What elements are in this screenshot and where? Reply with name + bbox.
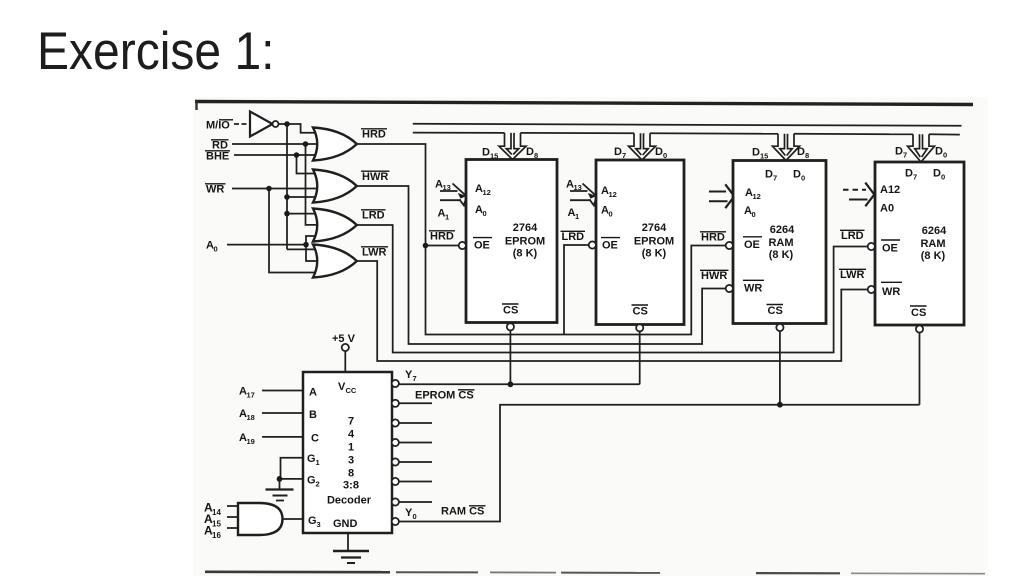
pin bubble decoder Y5 [392,419,399,426]
label OE inside EPROM U2 [601,238,620,252]
label CS inside RAM U3 [767,305,784,318]
data bus rail B segment 1 [413,132,505,134]
svg-text:D: D [905,168,913,180]
svg-text:(8 K): (8 K) [513,248,538,260]
label HWR at gate [361,171,390,183]
wire inverter output to OR gates (M/IO' net) [279,124,320,249]
svg-text:8: 8 [348,468,354,480]
OR gate LWR [313,245,357,278]
RAM U3 chip box [733,161,826,324]
svg-text:6264: 6264 [922,225,947,237]
label A13 at EPROM U1 [435,179,451,193]
svg-text:0: 0 [943,151,947,160]
svg-text:+5 V: +5 V [332,333,356,345]
svg-text:WR: WR [744,283,762,295]
svg-text:12: 12 [753,192,761,201]
label D15 at EPROM U1 [482,147,498,161]
pin bubble RAM U4 WR [868,286,875,293]
junction dot HRD at EPROM U1 OE [423,243,429,249]
label A19 [239,432,255,446]
decoder pin label A [309,387,317,399]
svg-text:7: 7 [903,151,907,160]
svg-text:CC: CC [346,386,357,395]
value label 6264 RAM (8 K) inside U4 [920,225,947,262]
label A1 at EPROM U2 [568,207,580,221]
svg-text:A12: A12 [880,184,900,196]
label HWR at RAM U3 WR [700,270,729,282]
svg-text:7: 7 [348,416,354,428]
label D0 at EPROM U2 [655,146,667,160]
pin bubble EPROM U1 OE [459,242,466,249]
label A0 [206,240,218,254]
svg-text:0: 0 [609,210,613,219]
+5V supply circle [342,344,349,351]
svg-text:19: 19 [247,437,255,446]
wire EPROM U2 CS to decoder Y7 line [639,331,641,384]
svg-text:LWR: LWR [362,247,386,259]
label A0 inside EPROM U1 [475,204,487,218]
address arrow A1 into EPROM U1 [440,196,467,205]
wire GND pin to earth [347,533,349,551]
svg-text:D: D [614,146,622,158]
svg-text:2764: 2764 [513,222,538,234]
label D0 at RAM U4 [935,146,947,160]
wire A19 to decoder pin C [262,436,303,438]
label A0 inside RAM U3 [744,205,756,219]
svg-text:3: 3 [317,520,321,529]
label OE inside RAM U3 [743,237,762,251]
label A17 [239,386,255,400]
wire A18 to decoder pin B [262,412,303,414]
decoder output stub Y2 [399,481,432,483]
svg-text:0: 0 [752,210,756,219]
svg-text:A0: A0 [880,203,894,215]
junction dot WR branch [266,186,272,192]
svg-text:3: 3 [348,455,354,467]
svg-text:12: 12 [483,188,491,197]
wire A0 net [227,236,319,261]
svg-text:RAM CS: RAM CS [441,506,484,518]
label LRD at gate [361,210,386,222]
pin bubble decoder Y1 [392,498,399,505]
label D8 at RAM U3 [797,146,809,160]
label A0 inside RAM U4 [880,203,894,215]
svg-text:2764: 2764 [642,222,667,234]
label D7 at RAM U4 [895,146,907,160]
label A18 [239,408,255,422]
svg-text:D: D [797,146,805,158]
ground symbol at GND pin [333,551,369,563]
decoder pin label B [309,409,317,421]
inverter on M/IO [250,112,279,137]
wire G2 to ground [280,478,304,480]
wire +5V to VCC [344,351,346,372]
address bus arrow into RAM U4 [843,183,874,207]
label Y7 [405,369,417,383]
data bus rail B segment 4 [794,133,913,136]
label HRD at gate [361,129,387,141]
label M/IO [206,120,233,132]
svg-text:CS: CS [768,305,783,317]
svg-text:G: G [308,515,317,527]
label HRD at RAM U3 OE [700,232,726,244]
wire LWR net: gate output to RAM U4 WR [357,261,868,361]
label A12 inside EPROM U1 [475,183,491,197]
wire A17 to decoder pin A [262,390,303,392]
junction dot M/IO' at inverter output [284,121,290,127]
svg-text:OE: OE [602,240,618,252]
label D15 at RAM U3 [752,147,768,161]
svg-text:1: 1 [575,212,579,221]
decoder pin label G1 [307,453,320,467]
pin bubble decoder Y4 [392,439,399,446]
pin bubble RAM U4 CS [916,325,923,332]
wire BHE net [234,155,319,174]
svg-text:0: 0 [413,512,417,521]
wire M/IO input [234,123,250,125]
value label 2764 EPROM (8 K) inside U1 [505,222,545,260]
svg-text:8: 8 [805,151,809,160]
svg-text:D: D [895,146,903,158]
svg-text:D: D [933,168,941,180]
svg-text:WR: WR [882,286,900,298]
label CS inside RAM U4 [910,306,927,319]
pin bubble RAM U3 CS [776,324,783,331]
address arrow A13 into EPROM U2 [570,184,596,199]
svg-text:8: 8 [534,151,538,160]
svg-text:OE: OE [474,240,490,252]
data bus rail B segment 3 [650,132,778,135]
address bus arrow into RAM U3 [709,184,734,208]
svg-text:B: B [309,409,317,421]
label A0 inside EPROM U2 [601,205,613,219]
OR gate HWR [313,170,357,203]
label RAM CS [441,506,486,518]
svg-text:G: G [307,453,316,465]
wire AND gate input A14 [227,505,241,507]
svg-text:D: D [752,147,760,159]
svg-text:D: D [482,147,490,159]
label A14 [204,501,221,517]
svg-text:HWR: HWR [701,270,727,282]
label D0 inside RAM U4 [933,168,945,182]
label WR [205,184,226,196]
label A16 [204,524,221,540]
svg-text:D: D [655,146,663,158]
label BHE [205,151,230,163]
pin bubble EPROM U2 CS [636,324,643,331]
svg-text:WR: WR [206,184,224,196]
pin bubble EPROM U2 OE [589,241,596,248]
junction dot RAM CS line [777,402,783,408]
pin bubble EPROM U1 CS [507,323,514,330]
pin bubble decoder Y2 [392,478,399,485]
bottom border dashes [205,572,985,574]
decoder pin label GND [333,518,358,530]
svg-text:HRD: HRD [701,232,725,244]
address arrow A1 into EPROM U2 [570,196,597,205]
svg-text:A: A [309,387,317,399]
svg-text:7: 7 [913,173,917,182]
junction dot A0 branch [303,242,309,248]
svg-text:15: 15 [212,519,221,528]
OR gate LRD [313,209,357,242]
page title [37,21,275,82]
wire EPROM U1 CS to decoder Y7 line [509,330,511,384]
label D7 inside RAM U3 [765,169,777,183]
svg-text:LRD: LRD [362,210,385,222]
junction dot RD branch [303,141,309,147]
svg-text:15: 15 [490,152,498,161]
decoder 74138 box [303,372,392,533]
junction dot G1/G2 ground [277,476,283,482]
svg-text:0: 0 [801,174,805,183]
label D7 at EPROM U2 [614,146,626,160]
svg-text:G: G [307,475,316,487]
wire RAM CS (Y0) line [399,405,920,522]
svg-text:0: 0 [214,245,218,254]
svg-text:13: 13 [443,183,451,192]
decoder pin label C [311,433,319,445]
label LRD at RAM U4 OE [840,230,865,242]
pin bubble decoder Y3 [392,458,399,465]
EPROM U1 chip box [466,160,557,323]
svg-text:13: 13 [574,183,582,192]
label LWR at gate [361,247,388,259]
svg-text:CS: CS [633,306,648,318]
label EPROM CS [415,390,475,402]
svg-text:1: 1 [316,458,320,467]
svg-text:OE: OE [882,243,898,255]
bus funnel arrow into RAM U3 [773,134,800,161]
label OE inside EPROM U1 [473,238,492,252]
label RD [211,140,229,152]
label LRD at EPROM U2 OE [561,231,586,243]
svg-text:D: D [526,146,534,158]
wire G1 to ground [281,458,304,479]
label +5 V [332,333,356,345]
svg-text:(8 K): (8 K) [769,249,794,261]
svg-text:BHE: BHE [206,151,229,163]
wire LRD branch to EPROM U2 OE [564,245,589,335]
wire AND gate input A16 [227,527,241,529]
svg-text:LRD: LRD [562,231,585,243]
decoder pin label VCC [338,381,357,395]
decoder output stub Y4 [399,442,432,444]
svg-text:7: 7 [413,374,417,383]
bus funnel arrow into EPROM U2 [629,133,656,160]
label A12 inside RAM U4 [880,184,900,196]
svg-text:1: 1 [348,442,354,454]
value label 2764 EPROM (8 K) inside U2 [634,222,674,260]
RAM U4 chip box [875,162,964,325]
scan top border [195,101,973,110]
label A15 [204,512,221,528]
svg-text:1: 1 [445,213,449,222]
svg-text:HRD: HRD [362,129,386,141]
wire AND gate output to G3 [283,518,304,520]
label LWR at RAM U4 WR [839,269,866,281]
pin bubble RAM U3 WR [726,285,733,292]
svg-text:CS: CS [911,307,926,319]
wire HWR net: gate output to RAM U3 WR [357,186,726,344]
svg-text:17: 17 [247,391,255,400]
label Y0 [405,507,417,521]
label CS inside EPROM U2 [632,305,649,318]
svg-text:CS: CS [503,305,518,317]
svg-text:HWR: HWR [362,171,388,183]
svg-text:EPROM: EPROM [634,236,674,248]
wire AND gate input A15 [227,516,241,518]
data bus rail B segment 2 [521,132,635,134]
svg-text:0: 0 [483,209,487,218]
wire HRD net: gate output to EPROM U1 OE and RAM U3 OE [357,144,726,335]
svg-text:RAM: RAM [920,238,945,250]
bus funnel arrow into EPROM U1 [499,133,526,160]
pin bubble decoder Y0 [392,518,399,525]
label D8 at EPROM U1 [526,146,538,160]
decoder pin label G2 [307,475,320,489]
junction dot M/IO' to LRD gate [284,211,290,217]
svg-text:0: 0 [663,151,667,160]
svg-text:4: 4 [348,429,355,441]
svg-text:14: 14 [212,508,221,517]
label A12 inside RAM U3 [745,187,761,201]
EPROM U2 chip box [596,160,684,325]
svg-text:C: C [311,433,319,445]
svg-text:EPROM CS: EPROM CS [415,390,474,402]
svg-text:LRD: LRD [841,230,864,242]
scanned figure background [193,97,988,576]
junction dot BHE branch [294,152,300,158]
svg-text:7: 7 [773,174,777,183]
label A13 at EPROM U2 [566,179,582,193]
data bus rail A [413,124,962,126]
label HRD at EPROM U1 OE [429,231,455,243]
svg-text:LWR: LWR [840,269,864,281]
wire WR net [232,189,319,273]
svg-text:EPROM: EPROM [505,236,545,248]
label A12 inside EPROM U2 [601,185,617,199]
svg-text:M/IO: M/IO [206,120,230,132]
svg-text:GND: GND [333,518,358,530]
address arrow A13 into EPROM U1 [440,184,466,199]
label OE inside RAM U4 [881,240,900,255]
svg-text:D: D [793,169,801,181]
svg-text:OE: OE [744,239,760,251]
svg-text:HRD: HRD [430,231,454,243]
pin bubble decoder Y7 [392,380,399,387]
label A1 at EPROM U1 [438,208,450,222]
label CS inside EPROM U1 [502,304,519,317]
junction dot EPROM CS line [508,381,514,387]
junction dot M/IO' to HWR gate [284,194,290,200]
pin bubble decoder Y6 [392,400,399,407]
decoder output stub Y1 [399,501,432,503]
AND gate for G3 [238,503,283,535]
svg-text:2: 2 [316,480,320,489]
wire LRD net: gate output to RAM U4 OE [357,225,868,353]
decoder output stub Y5 [399,422,432,424]
svg-text:Decoder: Decoder [327,495,372,507]
pin bubble RAM U3 OE [726,242,733,249]
OR gate HRD [313,128,357,161]
svg-text:7: 7 [622,151,626,160]
data bus rail B segment 5 [929,133,960,135]
svg-text:D: D [935,146,943,158]
svg-text:18: 18 [247,413,255,422]
label D7 inside RAM U4 [905,168,917,182]
value label 6264 RAM (8 K) inside U3 [768,224,795,261]
label WR inside RAM U4 [881,282,902,298]
svg-text:D: D [765,169,773,181]
ground symbol at G2 [266,479,294,501]
decoder pin label G3 [308,515,321,529]
svg-text:12: 12 [609,190,617,199]
svg-text:RAM: RAM [768,237,793,249]
decoder output stub Y6 [399,402,432,404]
svg-text:3:8: 3:8 [343,480,359,492]
svg-text:(8 K): (8 K) [921,250,946,262]
decoder label 74138 column [327,416,372,507]
svg-text:(8 K): (8 K) [642,248,667,260]
wire EPROM CS (Y7) line [399,383,640,385]
wire RAM U4 CS down to RAM CS line [919,332,921,404]
pin bubble RAM U4 OE [868,243,875,250]
label D0 inside RAM U3 [793,169,805,183]
svg-text:16: 16 [212,531,221,540]
label WR inside RAM U3 [743,280,764,294]
svg-text:15: 15 [760,152,768,161]
bus funnel arrow into RAM U4 [908,134,935,162]
wire RD net [232,144,319,225]
svg-text:0: 0 [941,173,945,182]
wire RAM U3 CS down to RAM CS line [779,331,781,405]
svg-text:6264: 6264 [770,224,795,236]
decoder output stub Y3 [399,461,432,463]
